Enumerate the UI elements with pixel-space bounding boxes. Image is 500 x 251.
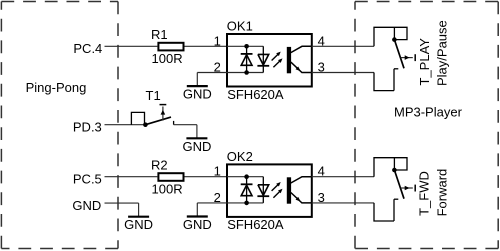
- anode/cathode rails: [227, 45, 263, 47]
- wire R1 to OK1 pin 1: [185, 45, 228, 47]
- push-button switch T1: [131, 105, 173, 127]
- svg-text:T_FWD: T_FWD: [417, 171, 432, 216]
- wire PC.5 to R2: [105, 176, 158, 178]
- pivot junction: [392, 168, 397, 173]
- lower contact frame: [374, 203, 394, 221]
- wire PC.4 to R1: [105, 45, 158, 47]
- wire R2 to OK2 pin 1: [185, 176, 228, 178]
- svg-text:1: 1: [214, 164, 221, 179]
- lever: [145, 117, 171, 125]
- contact frame square: [131, 112, 144, 124]
- svg-text:GND: GND: [124, 217, 153, 232]
- actuator arrow: [401, 187, 413, 189]
- IR LED diode right (anti-parallel pair): [262, 177, 264, 203]
- phototransistor: [287, 47, 291, 73]
- svg-text:Ping-Pong: Ping-Pong: [26, 80, 87, 95]
- ground symbol (connector GND): [124, 203, 153, 232]
- resistor R2: [158, 173, 183, 181]
- junction node top: [244, 174, 249, 179]
- fixed contact: [394, 68, 398, 70]
- OK body outline: [227, 34, 312, 87]
- lever: [394, 40, 404, 69]
- wire T1 contact to ground: [174, 124, 197, 126]
- ground symbol (OK2 pin 2): [183, 203, 212, 232]
- svg-text:PC.4: PC.4: [73, 41, 102, 56]
- pivot junction: [143, 122, 148, 127]
- wire OK2 pin 4 to T_FWD: [312, 176, 375, 178]
- anode/cathode rails: [227, 176, 263, 178]
- lower contact frame: [374, 73, 394, 91]
- IR LED diode left (anti-parallel pair): [246, 177, 248, 203]
- svg-text:GND: GND: [183, 217, 212, 232]
- svg-text:100R: 100R: [152, 181, 183, 196]
- svg-text:R2: R2: [151, 157, 168, 172]
- fixed contact: [394, 198, 398, 200]
- svg-text:GND: GND: [183, 87, 212, 102]
- IR LED diode left (anti-parallel pair): [246, 46, 248, 72]
- Ping-Pong module dashed boundary: [1, 2, 118, 249]
- svg-text:1: 1: [214, 33, 221, 48]
- svg-text:GND: GND: [182, 139, 211, 154]
- junction node bottom: [244, 70, 249, 75]
- fixed contact hook: [173, 121, 175, 125]
- svg-text:OK1: OK1: [227, 19, 253, 34]
- pivot junction: [392, 37, 397, 42]
- svg-text:SFH620A: SFH620A: [227, 87, 284, 102]
- svg-text:OK2: OK2: [227, 149, 253, 164]
- light emission arrows: [272, 54, 279, 60]
- actuator arrow: [401, 57, 413, 59]
- optocoupler U OK2: [227, 164, 312, 217]
- wire GND pin to ground: [105, 202, 139, 204]
- svg-text:PD.3: PD.3: [73, 120, 102, 135]
- wire OK2 pin 2 to ground: [197, 202, 227, 204]
- actuator arrow: [162, 107, 164, 121]
- svg-text:T1: T1: [146, 88, 161, 103]
- wire OK1 pin 3 to T_PLAY: [312, 72, 375, 74]
- ground symbol (T1): [182, 125, 211, 154]
- light emission arrows: [272, 185, 279, 191]
- ground symbol (OK1 pin 2): [183, 73, 212, 102]
- svg-text:SFH620A: SFH620A: [227, 217, 284, 232]
- wire PD.3 to T1: [105, 124, 146, 126]
- svg-text:R1: R1: [151, 27, 168, 42]
- svg-text:PC.5: PC.5: [73, 172, 102, 187]
- wire OK2 pin 3 to T_FWD: [312, 202, 375, 204]
- resistor R1: [158, 43, 183, 51]
- svg-text:MP3-Player: MP3-Player: [394, 105, 463, 120]
- upper contact frame: [374, 27, 407, 46]
- wire OK1 pin 4 to T_PLAY: [312, 45, 375, 47]
- svg-text:Forward: Forward: [434, 169, 449, 217]
- push-button switch T_PLAY: [374, 27, 415, 90]
- svg-text:100R: 100R: [152, 51, 183, 66]
- OK body outline: [227, 164, 312, 217]
- junction node bottom: [244, 201, 249, 206]
- svg-text:GND: GND: [72, 198, 101, 213]
- push-button switch T_FWD: [374, 158, 415, 221]
- MP3-Player module dashed boundary: [355, 2, 498, 249]
- optocoupler U OK1: [227, 34, 312, 87]
- upper contact frame: [374, 158, 407, 177]
- svg-text:T_PLAY: T_PLAY: [417, 38, 432, 86]
- junction node top: [244, 44, 249, 49]
- svg-text:Play/Pause: Play/Pause: [435, 20, 450, 86]
- wire OK1 pin 2 to ground: [197, 72, 227, 74]
- lever: [394, 170, 404, 199]
- phototransistor: [287, 177, 291, 203]
- IR LED diode right (anti-parallel pair): [262, 46, 264, 72]
